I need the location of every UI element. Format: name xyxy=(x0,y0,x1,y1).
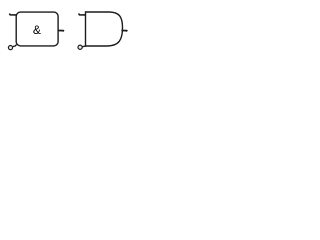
gate U2 (AND, ANSI distinctive shape) xyxy=(86,12,123,46)
pin 2 input wire of U2 xyxy=(82,45,85,48)
pin 1 input stub (hooked wire) of U2 xyxy=(79,14,86,15)
pin 2 open-circle terminal of U1 xyxy=(8,46,12,50)
svg-text:&: & xyxy=(33,23,41,37)
pin 2 open-circle terminal of U2 xyxy=(78,45,82,49)
output stub of U1 xyxy=(58,30,63,33)
output stub of U2 xyxy=(121,30,127,33)
pin 1 input stub (hooked wire) of U1 xyxy=(9,14,16,15)
gate U1 (AND, IEC rectangular symbol) xyxy=(16,12,58,46)
body U1 xyxy=(16,12,58,46)
pin 2 input wire of U1 xyxy=(13,44,16,46)
